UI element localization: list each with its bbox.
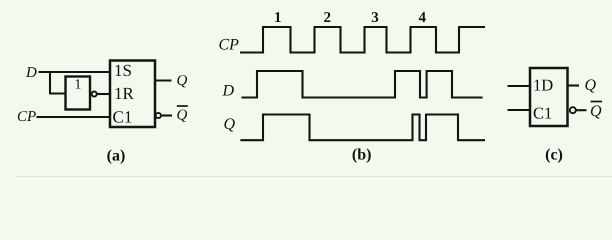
Q-bar output bubble: [156, 113, 161, 118]
wire 1D input: [508, 85, 531, 87]
D data waveform: [242, 71, 483, 98]
svg-text:Q: Q: [224, 116, 236, 133]
svg-text:CP: CP: [219, 37, 240, 54]
svg-text:3: 3: [371, 10, 379, 26]
node Q-bar output label of U2: [590, 102, 602, 120]
svg-text:Q: Q: [177, 73, 188, 89]
flip-flop U2 box: [530, 68, 568, 126]
svg-text:Q: Q: [585, 77, 597, 94]
svg-text:1: 1: [274, 10, 282, 26]
svg-text:Q: Q: [177, 108, 188, 124]
svg-text:2: 2: [324, 10, 332, 26]
svg-text:1S: 1S: [114, 61, 132, 80]
svg-text:(a): (a): [107, 148, 126, 165]
wire branch vertical from D: [49, 71, 51, 94]
flip-flop U1 box: [110, 61, 155, 128]
wire C1 input: [508, 109, 531, 111]
CP clock waveform: [240, 27, 485, 53]
svg-text:D: D: [25, 65, 37, 81]
svg-text:1R: 1R: [114, 84, 135, 103]
svg-text:CP: CP: [17, 109, 36, 125]
divider rule: [16, 177, 612, 178]
wire Q-bar output: [161, 114, 172, 116]
svg-text:1: 1: [74, 78, 81, 93]
wire CP to C1 input: [37, 116, 111, 118]
inverter gate box: [66, 77, 91, 110]
wire branch to inverter input: [49, 92, 66, 94]
svg-text:D: D: [222, 83, 235, 100]
inverter output bubble: [92, 92, 97, 97]
svg-text:(c): (c): [545, 147, 563, 164]
wire Q-bar output of U2: [576, 109, 587, 111]
wire D to 1S input: [39, 71, 111, 73]
svg-text:1D: 1D: [533, 75, 553, 94]
svg-text:Q: Q: [590, 103, 602, 120]
wire inverter bubble to 1R input: [97, 93, 110, 95]
svg-text:4: 4: [419, 10, 427, 26]
Q-bar bubble of U2: [570, 107, 576, 113]
Q output waveform: [240, 115, 485, 141]
svg-text:(b): (b): [352, 147, 372, 164]
wire Q output: [155, 79, 172, 81]
node Q-bar output label: [177, 106, 188, 124]
wire Q output of U2: [568, 84, 580, 86]
svg-text:C1: C1: [533, 103, 552, 122]
svg-text:C1: C1: [113, 107, 133, 126]
